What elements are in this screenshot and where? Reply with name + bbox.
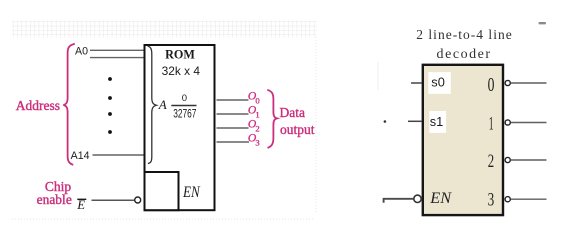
bubble output 1 [505,120,510,125]
svg-text:output: output [280,122,315,137]
label patch s1 [429,111,446,133]
grid texture band (decorative background remnant) [12,21,317,38]
svg-text:EN: EN [182,184,201,201]
wire O0 [217,99,249,101]
label patch s0 [428,72,451,94]
wire A1 [90,57,144,59]
svg-text:0: 0 [488,74,495,96]
bubble chip enable (active low) [135,197,141,203]
wire O3 [217,141,250,143]
svg-text:3: 3 [255,138,259,148]
node dot s1 row [384,120,387,123]
bubble output 3 [505,197,510,202]
wire input EN with tick [384,199,414,203]
wire input s0 [411,82,422,84]
wire output 1 [511,122,547,124]
label E-bar chip enable input [76,198,86,212]
ellipsis dots address lines [108,77,112,134]
wire output 0 [511,82,547,84]
ROM block U1 [145,45,215,210]
brace Data output [267,90,277,148]
stray dash mark top right [539,22,547,24]
wire O2 [217,127,249,129]
svg-text:32767: 32767 [173,107,196,121]
svg-text:E: E [76,198,85,212]
svg-text:A: A [158,97,167,112]
svg-text:3: 3 [488,189,495,210]
wire input s1 [408,120,422,122]
dotted grid row remnant [12,218,315,220]
wire O1 [217,113,249,115]
svg-text:Address: Address [16,98,60,113]
fraction bar 0/32767 [171,105,196,107]
bubble output 0 [505,80,510,85]
wire chip enable [92,199,135,201]
label O3 [248,132,260,148]
svg-text:Data: Data [280,105,305,120]
bubble output 2 [505,157,510,162]
enable sub-block [145,172,179,210]
dotted grid column remnant [315,37,317,212]
brace internal address range [148,46,157,164]
svg-text:A0: A0 [75,46,88,58]
svg-text:decoder: decoder [437,47,491,62]
label O0 [248,90,261,106]
brace Address [63,44,74,165]
bubble EN input (active low) [414,195,421,202]
svg-text:0: 0 [182,93,187,104]
svg-text:EN: EN [429,188,452,207]
decoder block U2 [423,65,503,215]
svg-text:1: 1 [489,114,494,135]
wire A14 [93,154,145,156]
svg-text:enable: enable [37,192,72,207]
svg-text:s1: s1 [430,114,444,129]
label O2 [248,118,260,134]
svg-text:s0: s0 [431,75,445,90]
svg-text:A14: A14 [71,150,90,162]
svg-text:2 line-to-4 line: 2 line-to-4 line [416,27,512,42]
svg-text:ROM: ROM [165,47,195,61]
wire output 3 [511,198,547,200]
wire A0 [90,49,144,51]
wire output 2 [511,159,547,161]
faint grid line remnant right [377,62,379,90]
label O1 [248,104,260,120]
svg-text:2: 2 [488,151,494,172]
svg-text:32k x 4: 32k x 4 [162,64,201,78]
